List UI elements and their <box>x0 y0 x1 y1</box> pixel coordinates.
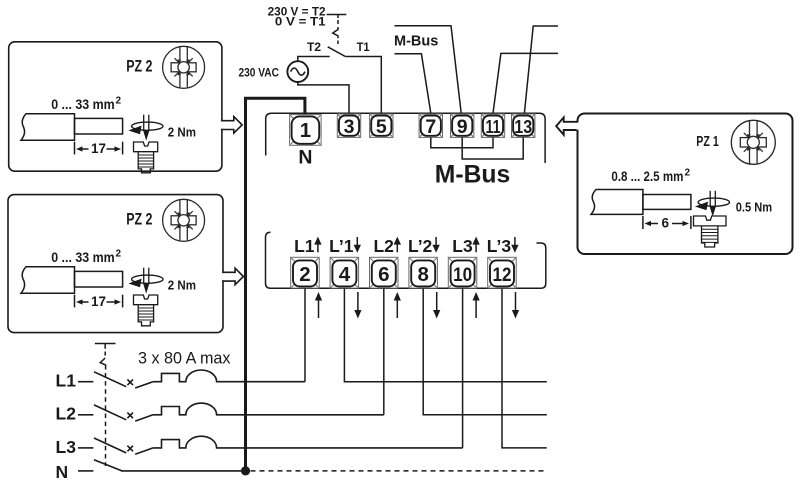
seal point L2 <box>127 413 133 419</box>
wire T2 fixed contact to AC source <box>298 57 330 62</box>
terminal 2 <box>291 257 320 288</box>
tariff switch blade <box>328 47 346 57</box>
svg-text:11: 11 <box>486 116 501 137</box>
screwdriver torque icon <box>128 115 163 139</box>
junction node N <box>241 466 250 475</box>
svg-text:2 Nm: 2 Nm <box>168 126 196 140</box>
svg-text:PZ 1: PZ 1 <box>696 133 719 150</box>
svg-text:4: 4 <box>339 263 351 286</box>
terminal 6 <box>370 257 399 288</box>
terminal 13 <box>512 114 535 137</box>
terminal 12 <box>488 257 517 288</box>
svg-text:17: 17 <box>91 141 106 156</box>
fuse L1 <box>153 370 305 382</box>
svg-text:L3: L3 <box>56 437 77 457</box>
svg-text:L’1: L’1 <box>329 236 354 256</box>
seal point L1 <box>127 380 133 386</box>
wire terminal 12 to L'3 output <box>502 288 547 448</box>
PZ1 instruction box (right) <box>578 114 793 255</box>
current direction arrow below terminal 6 (up) <box>396 298 398 318</box>
terminal 5 <box>370 114 393 138</box>
svg-text:0.8 ... 2.5 mm: 0.8 ... 2.5 mm <box>611 169 683 184</box>
svg-text:8: 8 <box>417 263 428 286</box>
PZ2 instruction box 1 (top-left) <box>9 42 222 171</box>
screwdriver torque icon <box>695 191 730 215</box>
pozidriv bit icon <box>731 120 775 164</box>
PZ2 box 1 contents <box>21 46 205 173</box>
switch blade L3 <box>94 438 126 453</box>
cable insulation <box>591 190 643 215</box>
svg-text:T2: T2 <box>307 42 321 54</box>
wire L2 stub <box>78 414 93 416</box>
wire terminal 6 down to L2 feed <box>383 288 385 415</box>
svg-text:2: 2 <box>299 263 310 286</box>
svg-text:230 VAC: 230 VAC <box>239 66 280 80</box>
tariff control dashed actuator with spring <box>337 20 339 24</box>
svg-text:L’2: L’2 <box>408 236 433 256</box>
switch blade L1 <box>94 372 126 387</box>
wire terminal 2 down to L1 feed <box>304 288 306 381</box>
M-Bus wire to terminal 7 <box>395 54 431 113</box>
svg-text:M-Bus: M-Bus <box>394 32 438 49</box>
svg-text:L2: L2 <box>56 404 77 424</box>
M-Bus wire to terminal 9 <box>395 26 462 114</box>
seal point L3 <box>127 446 133 452</box>
svg-text:0 ... 33 mm: 0 ... 33 mm <box>51 97 114 112</box>
wire T1 fixed contact down to terminal 5 <box>345 57 381 114</box>
contact blade L3 <box>135 448 153 454</box>
svg-text:N: N <box>298 146 312 168</box>
arrow from PZ2 box2 into terminal row 2 <box>221 273 225 280</box>
svg-text:6: 6 <box>662 216 670 231</box>
terminal 1 <box>290 115 322 146</box>
wire terminal 4 to L'1 output <box>344 288 546 381</box>
PZ2 box 2 contents (same as box 1) <box>21 199 205 325</box>
arrow from PZ1 box into terminal row 1 <box>576 123 580 130</box>
main switch actuator dashes and spring <box>104 352 106 356</box>
terminal 4 <box>330 257 359 288</box>
contact blade L2 <box>135 415 153 421</box>
PZ1 box contents <box>591 120 775 247</box>
svg-text:12: 12 <box>493 264 512 286</box>
svg-text:2: 2 <box>116 96 122 107</box>
current direction arrow below terminal 8 (down) <box>436 292 438 312</box>
svg-text:M-Bus: M-Bus <box>435 161 510 188</box>
svg-text:L1: L1 <box>56 371 77 391</box>
current direction arrow below terminal 10 (up) <box>475 298 477 318</box>
svg-text:6: 6 <box>378 263 389 286</box>
dashed N wire to loads <box>251 470 547 472</box>
AC source 230 VAC <box>287 61 308 82</box>
svg-text:10: 10 <box>453 264 472 286</box>
dimension 17 ticks <box>74 142 76 155</box>
svg-text:L2: L2 <box>373 236 394 256</box>
screw icon <box>694 216 727 247</box>
terminal 7 <box>419 114 442 138</box>
main switch handle <box>95 344 116 349</box>
svg-text:3: 3 <box>344 116 355 138</box>
svg-text:N: N <box>56 462 69 482</box>
svg-text:5: 5 <box>376 116 387 138</box>
svg-text:9: 9 <box>457 116 468 138</box>
wire terminal 10 down to L3 feed <box>462 288 464 448</box>
PZ2 instruction box 2 (bottom-left) <box>8 195 223 333</box>
cable conductor <box>643 195 691 210</box>
wire L1 stub <box>78 381 93 383</box>
main switch linkage (dashed) <box>105 373 107 466</box>
screw icon <box>134 142 158 173</box>
meter terminal strip 2 outline <box>266 232 546 288</box>
svg-text:L3: L3 <box>452 236 473 256</box>
wire AC source to terminal 3 <box>298 82 349 113</box>
dimension 6 ticks <box>642 216 644 229</box>
svg-text:0 V = T1: 0 V = T1 <box>275 16 326 28</box>
terminal 11 <box>481 114 504 137</box>
M-Bus wire to terminal 13 <box>524 26 558 113</box>
svg-text:PZ 2: PZ 2 <box>126 58 152 76</box>
meter terminal strip 1 outline <box>266 113 545 163</box>
arrow from PZ2 box1 into terminal row 1 <box>220 122 224 129</box>
wire N stub <box>78 470 93 472</box>
current direction arrow below terminal 4 (down) <box>357 292 359 312</box>
switch blade L2 <box>94 405 126 420</box>
svg-text:T1: T1 <box>357 42 371 54</box>
svg-text:3 x 80 A max: 3 x 80 A max <box>138 349 231 367</box>
terminal 8 <box>409 257 438 288</box>
terminal 9 <box>451 114 474 138</box>
svg-text:0.5 Nm: 0.5 Nm <box>736 201 772 215</box>
cable conductor <box>75 118 123 134</box>
terminal 3 <box>337 114 360 138</box>
tariff control contact top <box>327 14 347 16</box>
svg-text:1: 1 <box>300 119 311 142</box>
wire N to junction <box>121 470 246 472</box>
M-Bus wire to terminal 11 <box>493 53 558 113</box>
svg-text:7: 7 <box>425 116 436 138</box>
svg-text:13: 13 <box>514 116 532 137</box>
M-Bus jumper terminal 7 to 11 <box>431 137 493 147</box>
svg-text:2: 2 <box>685 168 691 179</box>
fuse L3 <box>153 436 463 448</box>
wire terminal 8 to L'2 output <box>423 288 547 415</box>
M-Bus jumper terminal 9 to 13 <box>462 137 523 159</box>
pozidriv bit icon <box>163 46 205 88</box>
terminal 10 <box>448 257 477 288</box>
current direction arrow below terminal 12 (down) <box>515 292 517 312</box>
current direction arrow below terminal 2 (up) <box>318 298 320 318</box>
svg-text:L’3: L’3 <box>487 236 512 256</box>
cable insulation <box>21 114 75 140</box>
switch blade N <box>94 460 122 471</box>
contact blade L1 <box>135 382 153 388</box>
svg-text:L1: L1 <box>294 236 315 256</box>
wire L3 stub <box>78 447 93 449</box>
thick neutral wire from N line to terminal 1 <box>246 98 305 471</box>
fuse L2 <box>153 403 384 415</box>
